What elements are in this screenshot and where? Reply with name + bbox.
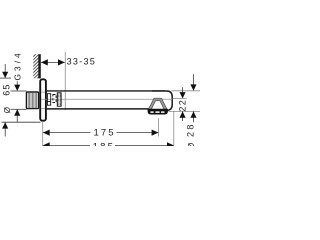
spout body top line [46, 90, 165, 92]
arrow left 33-35 [41, 59, 48, 65]
nipple edges through flange [41, 91, 45, 93]
bottom crop mask [0, 146, 200, 200]
arrow right 33-35 [58, 59, 65, 65]
dim dia 28 [193, 74, 195, 85]
svg-text:22: 22 [178, 99, 188, 112]
nipple G3/4 thread [26, 92, 38, 109]
aerator inner white [151, 100, 165, 110]
spout body bottom line [46, 108, 151, 110]
set screw hatched [57, 93, 61, 106]
svg-text:33-35: 33-35 [67, 57, 97, 67]
G3/4 dimension [11, 90, 27, 92]
dim 185 (cut off) [173, 111, 175, 148]
svg-text:28: 28 [186, 122, 196, 137]
svg-text:G3/4: G3/4 [12, 50, 22, 80]
svg-text:175: 175 [93, 127, 115, 138]
internal pipe end dashed [53, 95, 56, 103]
waterway line [41, 98, 172, 100]
svg-text:65: 65 [1, 83, 11, 95]
aerator cone band [148, 98, 167, 109]
right extension lines [172, 90, 201, 92]
cap slots [150, 111, 154, 113]
extension line 33-35 [64, 52, 66, 110]
internal connector rect [47, 94, 50, 106]
wall face line [38, 54, 41, 78]
dim 33-35 line [41, 61, 65, 63]
dia 65 dimension [0, 77, 11, 79]
spout tip rounded end [152, 91, 172, 111]
aerator cap [148, 109, 168, 115]
dim 175 [42, 122, 44, 148]
dim 22 [182, 87, 184, 93]
flange escutcheon [40, 79, 46, 120]
wall hatch [30, 48, 42, 86]
svg-text:Ø: Ø [3, 107, 12, 113]
